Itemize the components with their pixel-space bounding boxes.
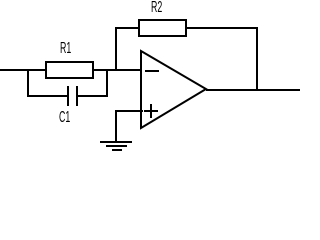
wire: feedback right vertical down to output net <box>256 27 258 91</box>
wire: op-amp output net <box>206 89 300 91</box>
wire: ground stem vertical <box>115 110 117 143</box>
wire: non-inverting input to ground horizontal <box>115 110 143 112</box>
label C1 <box>59 110 70 126</box>
ground bar 2 <box>106 145 127 147</box>
resistor R1 <box>45 61 94 79</box>
label R2 <box>151 0 162 16</box>
resistor R2 <box>138 19 187 37</box>
wire: C1 branch right vertical up to input net <box>106 69 108 97</box>
wire: feedback left vertical down to inverting input net <box>115 27 117 71</box>
node A: junction of input wire and C1 left branch <box>27 69 29 97</box>
wire: C1 branch bottom right horizontal <box>78 95 108 97</box>
op-amp U1 non-inverting input marker (+) vertical <box>150 104 152 118</box>
op-amp U1 <box>0 0 303 151</box>
op-amp U1 inverting input marker (-) <box>145 70 159 72</box>
capacitor C1 left plate <box>67 86 69 106</box>
op-amp U1 non-inverting input marker (+) horizontal <box>144 110 158 112</box>
ground bar 3 <box>112 149 122 151</box>
capacitor C1 right plate <box>76 86 78 106</box>
wire: input net left segment <box>0 69 47 71</box>
wire: feedback top wire to R2 left <box>115 27 140 29</box>
ground bar 1 <box>100 141 132 143</box>
wire: R2 right to feedback right corner <box>186 27 258 29</box>
wire: C1 branch bottom left horizontal <box>27 95 67 97</box>
label R1 <box>60 41 71 57</box>
wire: R1 right to op-amp inverting input <box>93 69 142 71</box>
